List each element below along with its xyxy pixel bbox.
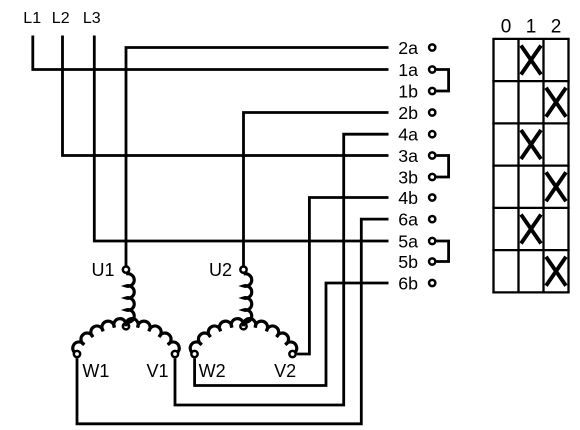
terminal 2a contact bbox=[429, 44, 435, 50]
svg-text:V2: V2 bbox=[274, 361, 296, 381]
contact X row 1 position 1 bbox=[521, 46, 541, 75]
winding terminal V2 bbox=[289, 351, 295, 357]
coil W2 bbox=[190, 319, 243, 354]
wire L2 to terminal 3a bbox=[63, 36, 389, 156]
svg-text:3b: 3b bbox=[398, 167, 418, 187]
coil V1 bbox=[126, 319, 179, 354]
wire L3 to terminal 5a bbox=[94, 36, 388, 242]
coil W1 bbox=[73, 319, 126, 354]
wire terminal 2b to U2 bbox=[244, 113, 389, 266]
star point node winding 1 bbox=[123, 323, 129, 329]
svg-text:W1: W1 bbox=[82, 361, 109, 381]
jumper link 1a-1b bbox=[437, 70, 449, 92]
wire terminal 4b to V2 bbox=[297, 198, 389, 355]
terminal 6a contact bbox=[429, 216, 435, 222]
terminal 5b contact bbox=[429, 258, 435, 264]
terminal 3b contact bbox=[429, 174, 435, 180]
wire terminal 6b to W2 bbox=[195, 283, 389, 386]
contact X row 3 position 1 bbox=[521, 130, 541, 159]
svg-text:1a: 1a bbox=[398, 60, 418, 80]
winding terminal W1 bbox=[74, 351, 80, 357]
winding terminal W2 bbox=[191, 351, 197, 357]
coil V2 bbox=[243, 319, 296, 354]
svg-text:6a: 6a bbox=[398, 209, 418, 229]
motor winding U2 terminal bbox=[240, 266, 246, 272]
contact X row 2 position 2 bbox=[546, 88, 566, 117]
terminal 6b contact bbox=[429, 280, 435, 286]
jumper link 3a-3b bbox=[437, 156, 449, 178]
wire terminal 4a to V1 bbox=[175, 134, 389, 405]
wire L1 to terminal 1a bbox=[33, 36, 389, 70]
terminal 1a contact bbox=[429, 66, 435, 72]
svg-text:U2: U2 bbox=[209, 260, 232, 280]
contact X row 4 position 2 bbox=[546, 172, 566, 201]
svg-text:2b: 2b bbox=[398, 103, 418, 123]
svg-text:1: 1 bbox=[526, 16, 537, 37]
terminal 3a contact bbox=[429, 152, 435, 158]
winding terminal V1 bbox=[172, 351, 178, 357]
motor winding U1 terminal bbox=[123, 266, 129, 272]
jumper link 5a-5b bbox=[437, 241, 449, 262]
svg-text:5a: 5a bbox=[398, 231, 418, 251]
svg-text:1b: 1b bbox=[398, 81, 418, 101]
svg-text:U1: U1 bbox=[91, 260, 114, 280]
svg-text:V1: V1 bbox=[146, 361, 168, 381]
svg-text:2a: 2a bbox=[398, 38, 418, 58]
svg-text:0: 0 bbox=[501, 16, 512, 37]
coil U1 bbox=[126, 274, 134, 323]
svg-text:2: 2 bbox=[551, 16, 562, 37]
svg-text:4a: 4a bbox=[398, 125, 418, 145]
terminal 1b contact bbox=[429, 88, 435, 94]
svg-text:5b: 5b bbox=[398, 252, 418, 272]
terminal 4b contact bbox=[429, 194, 435, 200]
svg-text:W2: W2 bbox=[199, 361, 226, 381]
svg-text:4b: 4b bbox=[398, 188, 418, 208]
contact X row 5 position 1 bbox=[521, 215, 541, 244]
svg-text:L1: L1 bbox=[23, 10, 41, 27]
svg-text:6b: 6b bbox=[398, 273, 418, 293]
svg-text:L3: L3 bbox=[83, 10, 101, 27]
svg-text:L2: L2 bbox=[52, 10, 70, 27]
star point node winding 2 bbox=[240, 323, 246, 329]
wire terminal 2a to U1 bbox=[126, 48, 389, 266]
contact X row 6 position 2 bbox=[546, 257, 566, 286]
terminal 2b contact bbox=[429, 109, 435, 115]
svg-text:3a: 3a bbox=[398, 146, 418, 166]
coil U2 bbox=[244, 274, 252, 323]
wire terminal 6a to W1 bbox=[77, 219, 389, 424]
contact table grid bbox=[492, 39, 494, 293]
terminal 5a contact bbox=[429, 238, 435, 244]
terminal 4a contact bbox=[429, 131, 435, 137]
